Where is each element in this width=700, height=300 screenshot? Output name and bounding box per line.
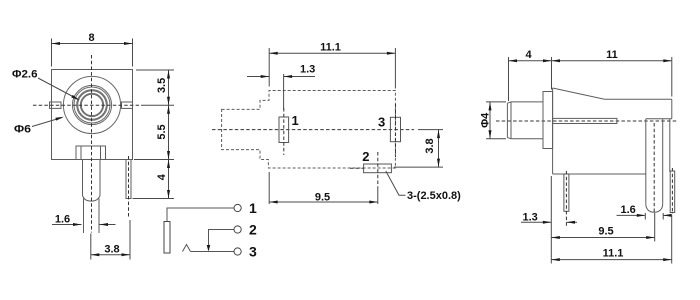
svg-text:Φ4: Φ4	[480, 112, 492, 128]
svg-text:3: 3	[378, 114, 385, 129]
svg-text:11.1: 11.1	[320, 42, 341, 54]
svg-text:3.5: 3.5	[156, 78, 168, 93]
side view: flange	[543, 92, 553, 149]
front view: horizontal center line	[33, 104, 141, 106]
leader 3-(2.5x0.8)	[386, 171, 461, 202]
side view: rear thin pin	[670, 168, 675, 214]
side view: front thin pin	[564, 171, 569, 226]
dimension 3.5 / 5.5 / 4 (front view right side)	[133, 70, 175, 199]
label Phi 2.6 with leader	[12, 69, 80, 101]
schematic: sleeve contact bar	[164, 222, 170, 254]
svg-text:1.3: 1.3	[300, 64, 315, 76]
dimension 3.8 (top view)	[394, 130, 443, 168]
dimension 1.3 (side view)	[521, 176, 577, 264]
top view: pin 3	[390, 104, 400, 157]
svg-text:3.8: 3.8	[104, 243, 119, 255]
svg-text:3: 3	[249, 244, 257, 260]
schematic: pin 3 terminal circle	[234, 248, 241, 255]
side view: horizontal center line	[496, 120, 678, 122]
svg-text:11.1: 11.1	[603, 248, 624, 260]
svg-text:5.5: 5.5	[156, 124, 168, 139]
top view: hidden outline of body	[222, 91, 396, 169]
svg-text:9.5: 9.5	[598, 226, 613, 238]
svg-text:1: 1	[292, 113, 299, 128]
schematic: wire pin 3	[191, 251, 235, 253]
svg-text:1.6: 1.6	[55, 214, 70, 226]
side view: sleeve pin (J shape)	[646, 119, 672, 213]
svg-text:2: 2	[249, 222, 257, 238]
svg-text:3.8: 3.8	[424, 138, 436, 153]
dimension 1.3 (top view)	[247, 64, 315, 111]
dimension 9.5 (side view)	[551, 213, 654, 242]
front view: square body	[52, 70, 133, 160]
svg-text:Φ6: Φ6	[14, 124, 31, 136]
svg-text:8: 8	[88, 32, 94, 44]
dimension 11.1 (top view)	[269, 42, 395, 89]
schematic: pin 2 terminal circle	[234, 226, 241, 233]
front view: bottom tab boss	[76, 146, 106, 160]
schematic: wire from sleeve to pin 1	[167, 208, 234, 222]
dimension 11.1 (side view)	[551, 215, 671, 264]
front view: right mounting lug	[122, 102, 133, 108]
dimension Phi 4 (side view left)	[480, 102, 507, 139]
side view: body outline	[553, 88, 672, 174]
top view: pin 1	[279, 108, 289, 155]
svg-text:9.5: 9.5	[315, 192, 330, 204]
svg-text:Φ2.6: Φ2.6	[12, 69, 38, 81]
schematic: tip spring contact	[183, 245, 191, 252]
front view: barrel concentric circles	[63, 76, 120, 133]
svg-text:4: 4	[525, 49, 532, 61]
schematic: pin 1 terminal circle	[234, 204, 241, 211]
dimension 1.6 (front view pin width)	[52, 214, 116, 227]
svg-text:11: 11	[606, 49, 618, 61]
side view: tip contact bar	[553, 118, 617, 123]
svg-text:1.3: 1.3	[523, 212, 538, 224]
top view: pin 2	[350, 152, 391, 188]
front view: right side pin	[126, 156, 131, 217]
schematic: wire pin 2 with down arrow	[207, 230, 234, 252]
dimension 4 and 11 (side view top)	[509, 49, 672, 101]
label Phi 6 with leader	[14, 117, 64, 136]
dimension 1.6 (side view)	[617, 204, 672, 219]
front view: left mounting lug	[50, 102, 62, 108]
top view: horizontal center line	[212, 129, 414, 131]
side view: threaded bushing tip	[507, 102, 543, 139]
svg-text:4: 4	[156, 173, 168, 180]
dimension 8 (front view top)	[52, 32, 133, 67]
svg-text:2: 2	[362, 149, 369, 164]
svg-text:3-(2.5x0.8): 3-(2.5x0.8)	[407, 190, 461, 202]
dimension 3.8 (front view pin spacing)	[91, 220, 130, 260]
front view: center pin leg with domed tip	[83, 160, 101, 234]
svg-text:1: 1	[249, 200, 257, 216]
front view: vertical center line	[91, 55, 93, 233]
dimension 9.5 (top view)	[269, 172, 378, 204]
svg-text:1.6: 1.6	[621, 204, 636, 216]
